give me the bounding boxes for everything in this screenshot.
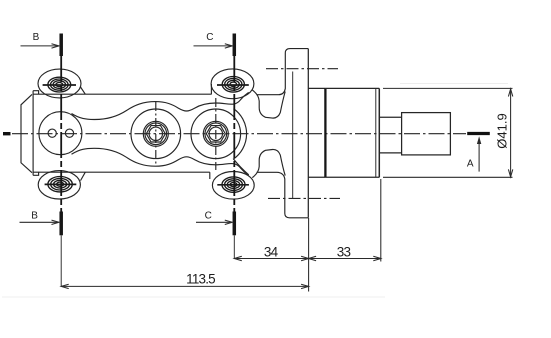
casting outline bottom: mirror (72, 148, 249, 175)
port left ring outer (143, 121, 168, 146)
dimension line dia 41.9 (508, 89, 512, 177)
port left hexagon (146, 126, 165, 142)
port right ring inner (205, 123, 227, 145)
svg-text:C: C (205, 210, 212, 221)
extension cylinder bottom to dia dim (383, 176, 513, 178)
cylinder right edge outer (378, 88, 380, 177)
rim arc around right lobe right side (234, 109, 249, 175)
circle face left (39, 112, 82, 155)
step left of boss C bottom (209, 172, 211, 179)
reservoir boss top-left ellipse (38, 69, 81, 98)
svg-text:113.5: 113.5 (186, 271, 215, 286)
threaded hole bottom-left (48, 177, 72, 192)
casting outline top: circle1 to left rim to waist to right rim (72, 92, 249, 119)
neck bottom (379, 152, 401, 154)
port lobe left outer (131, 109, 181, 159)
svg-text:C: C (206, 32, 213, 43)
extension line flange edge down (308, 218, 310, 292)
section line B (59, 34, 63, 287)
svg-text:A: A (467, 158, 474, 169)
dimension line 34-33 (234, 256, 380, 260)
bottom line right of boss C with fillet to flange (257, 172, 309, 218)
boss B top skirt right (81, 87, 86, 94)
left cap top ledge (33, 91, 39, 95)
port left ring inner (145, 123, 167, 145)
step left of boss C top (210, 84, 212, 94)
main horizontal center line (3, 132, 466, 135)
tube top between flange and cylinder (308, 87, 325, 89)
left end cap inner face (32, 91, 34, 176)
extension line cylinder right edge down (380, 179, 382, 262)
body top edge (33, 93, 211, 95)
port lobe center line right (215, 98, 217, 170)
inner vertical behind flange (292, 72, 294, 199)
port right hexagon (206, 126, 225, 142)
port lobe right outer (191, 109, 241, 159)
left end cap outer chamfer profile (21, 94, 32, 172)
boss B bottom skirt right (81, 172, 86, 180)
reservoir boss bottom-right ellipse (212, 172, 254, 200)
threaded hole top-left (48, 77, 71, 92)
small hole left (48, 129, 56, 137)
left cap bottom ledge (33, 172, 39, 175)
port right ring outer (203, 121, 228, 146)
cylinder left edge thick (324, 88, 326, 177)
small hole right (65, 129, 73, 137)
flange hole center line bottom (268, 197, 340, 199)
reservoir boss top-right ellipse (211, 69, 254, 99)
flange right edge (307, 49, 309, 218)
reservoir boss bottom-left ellipse (38, 171, 80, 199)
body bottom edge (33, 171, 210, 173)
thread tick top-left (43, 84, 76, 86)
svg-text:B: B (31, 210, 38, 221)
leader arrow B top (21, 44, 60, 48)
leader arrow C top (194, 44, 233, 48)
threaded hole bottom-right (222, 177, 245, 192)
flange hole center line top (266, 68, 338, 70)
section line C (233, 34, 237, 259)
threaded hole top-right (222, 77, 244, 93)
neck top (379, 116, 401, 118)
cylinder right edge inner (375, 88, 377, 177)
dimension line 113.5 (61, 284, 308, 288)
faint scan artifact line top right (400, 83, 508, 85)
cylinder bottom edge (325, 176, 379, 178)
leader arrow C bottom (196, 220, 232, 224)
extension cylinder top to dia dim (383, 87, 513, 89)
svg-text:33: 33 (337, 244, 351, 259)
end block (402, 113, 451, 155)
cylinder top edge (325, 87, 379, 89)
thread tick bottom-right (217, 184, 249, 186)
leader arrow B bottom (20, 220, 60, 224)
port left bore (149, 127, 162, 140)
svg-text:Ø41.9: Ø41.9 (495, 113, 510, 148)
tube bottom between flange and cylinder (308, 176, 325, 178)
thread tick bottom-left (45, 183, 77, 185)
port lobe center line left (155, 102, 157, 166)
waist pocket top (252, 90, 285, 118)
arrow A (477, 136, 481, 171)
top line right of boss C with fillet to flange (257, 49, 309, 95)
svg-text:34: 34 (264, 244, 279, 259)
faint scan artifact line bottom (2, 296, 385, 298)
thread tick top-right (217, 84, 249, 86)
waist pocket bottom (252, 149, 285, 177)
section bar A (467, 132, 490, 135)
port right bore (209, 127, 222, 140)
svg-text:B: B (33, 32, 40, 43)
